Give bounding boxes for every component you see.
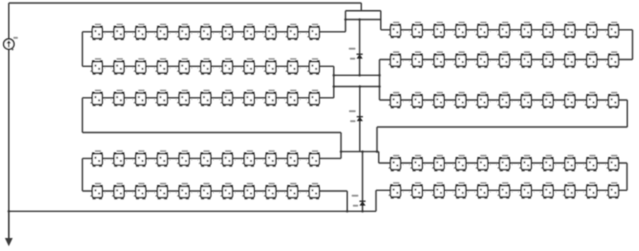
- wire L1-L2 left link: [81, 32, 83, 67]
- terminal specks SL1: [104, 192, 111, 193]
- PV cell block SL1: [389, 155, 401, 172]
- wire top bus left drop to row L1: [345, 11, 347, 32]
- PV cell block SL9: [563, 51, 575, 68]
- terminal specks SL6: [213, 67, 220, 68]
- PV cell block SL7: [221, 150, 233, 167]
- PV cell block SL1: [389, 22, 401, 38]
- PV cell block SL7: [221, 58, 233, 75]
- PV cell block SL3: [134, 183, 146, 200]
- PV cell block SL7: [520, 22, 532, 38]
- terminal specks SL4: [468, 191, 475, 192]
- PV cell block SL11: [607, 182, 619, 199]
- PV cell block SL10: [585, 155, 597, 172]
- terminal specks SL3: [148, 192, 155, 193]
- terminal specks SL8: [256, 192, 263, 193]
- terminal specks SL2: [126, 99, 133, 100]
- PV cell block SL9: [264, 90, 276, 107]
- terminal specks SL9: [278, 192, 285, 193]
- PV cell block SL3: [432, 22, 444, 38]
- PV cell block SL4: [454, 22, 466, 38]
- PV cell block SL4: [454, 182, 466, 199]
- PV cell block SL10: [585, 22, 597, 38]
- wire row L3: [82, 97, 333, 99]
- terminal specks SL6: [512, 61, 519, 62]
- terminal specks SL2: [424, 61, 431, 62]
- PV cell block SL1: [91, 90, 103, 107]
- node bottom L5: [346, 210, 349, 213]
- PV cell block SL5: [177, 183, 189, 200]
- terminal specks SL2: [424, 101, 431, 102]
- wire row L5: [82, 190, 347, 192]
- ground arrow: [5, 211, 13, 246]
- node mid bus 6: [378, 85, 381, 88]
- terminal specks SL1: [104, 67, 111, 68]
- node bus3 right: [376, 150, 379, 153]
- terminal specks SL2: [424, 31, 431, 32]
- PV cell block SL6: [199, 24, 211, 40]
- PV cell block SL3: [432, 51, 444, 68]
- wire bypass diode 1 branch: [359, 20, 361, 76]
- PV cell block SL6: [498, 22, 510, 38]
- node top bus B: [358, 18, 361, 21]
- terminal specks SL3: [148, 33, 155, 34]
- wire R1-R2 right link: [632, 30, 634, 60]
- PV cell block SL10: [286, 183, 298, 200]
- terminal specks SL1: [104, 99, 111, 100]
- PV cell block SL9: [264, 150, 276, 167]
- PV cell block SL10: [286, 90, 298, 107]
- PV cell block SL1: [389, 182, 401, 199]
- PV cell block SL6: [199, 90, 211, 107]
- PV cell block SL7: [520, 182, 532, 199]
- terminal specks SL5: [191, 192, 198, 193]
- terminal specks SL7: [533, 191, 540, 192]
- node mid bus 5: [359, 85, 362, 88]
- PV cell block SL4: [454, 155, 466, 172]
- PV cell block SL3: [432, 155, 444, 172]
- wire bottom negative bus: [9, 210, 376, 212]
- PV cell block SL4: [156, 150, 168, 167]
- terminal specks SL5: [191, 99, 198, 100]
- PV cell block SL5: [476, 182, 488, 199]
- PV cell block SL8: [242, 90, 254, 107]
- PV cell block SL8: [541, 92, 553, 109]
- terminal specks SL9: [278, 99, 285, 100]
- terminal specks SL10: [300, 159, 307, 160]
- PV cell block SL2: [112, 24, 124, 40]
- terminal specks SL7: [533, 61, 540, 62]
- PV cell block SL7: [221, 183, 233, 200]
- wire top bus rail upper: [346, 10, 381, 12]
- bypass diode D3: [352, 195, 366, 207]
- terminal specks SL4: [468, 101, 475, 102]
- wire top bus right drop to row R1: [380, 11, 382, 30]
- wire source top segment: [8, 3, 10, 39]
- PV cell block SL4: [156, 90, 168, 107]
- terminal specks SL5: [490, 31, 497, 32]
- terminal specks SL10: [300, 67, 307, 68]
- terminal specks SL6: [213, 99, 220, 100]
- terminal specks SL4: [468, 31, 475, 32]
- wire bus3 to R4 drop: [378, 152, 380, 163]
- PV cell block SL2: [112, 183, 124, 200]
- terminal specks SL10: [300, 99, 307, 100]
- PV cell block SL2: [112, 90, 124, 107]
- terminal specks SL2: [126, 192, 133, 193]
- PV cell block SL1: [91, 24, 103, 40]
- PV cell block SL2: [411, 155, 423, 172]
- terminal specks SL7: [533, 164, 540, 165]
- wire top feed drop: [360, 3, 362, 11]
- wire L3/L4 junction vertical: [340, 133, 342, 159]
- PV cell block SL2: [112, 150, 124, 167]
- wire row R1: [381, 29, 633, 31]
- PV cell block SL11: [607, 92, 619, 109]
- PV cell block SL1: [389, 92, 401, 109]
- wire row R3: [380, 99, 628, 101]
- terminal specks SL10: [599, 101, 606, 102]
- terminal specks SL2: [126, 159, 133, 160]
- terminal specks SL3: [148, 99, 155, 100]
- terminal specks SL5: [191, 67, 198, 68]
- terminal specks SL10: [599, 164, 606, 165]
- PV cell block SL11: [308, 24, 320, 40]
- PV cell block SL6: [498, 92, 510, 109]
- terminal specks SL7: [235, 67, 242, 68]
- terminal specks SL5: [490, 191, 497, 192]
- node mid bus 2: [358, 74, 361, 77]
- terminal specks SL4: [169, 99, 176, 100]
- terminal specks SL9: [577, 61, 584, 62]
- terminal specks SL6: [213, 33, 220, 34]
- terminal specks SL7: [533, 31, 540, 32]
- terminal specks SL8: [256, 67, 263, 68]
- terminal specks SL10: [599, 191, 606, 192]
- terminal specks SL4: [169, 33, 176, 34]
- PV cell block SL2: [411, 92, 423, 109]
- terminal specks SL5: [490, 101, 497, 102]
- PV cell block SL4: [156, 58, 168, 75]
- wire row L4: [82, 157, 341, 159]
- PV cell block SL9: [264, 24, 276, 40]
- wire L3 exit horizontal: [82, 132, 341, 134]
- PV cell block SL2: [411, 22, 423, 38]
- terminal specks SL9: [577, 164, 584, 165]
- terminal specks SL4: [468, 164, 475, 165]
- PV cell block SL8: [242, 58, 254, 75]
- PV cell block SL7: [520, 51, 532, 68]
- PV cell block SL9: [563, 22, 575, 38]
- wire row L1: [82, 31, 345, 33]
- PV cell block SL10: [286, 24, 298, 40]
- wire top bus rail lower: [346, 19, 381, 21]
- terminal specks SL1: [403, 164, 410, 165]
- PV cell block SL9: [563, 92, 575, 109]
- PV cell block SL6: [199, 183, 211, 200]
- PV cell block SL11: [607, 155, 619, 172]
- wire R2-R3 left link: [379, 60, 381, 101]
- terminal specks SL2: [126, 33, 133, 34]
- terminal specks SL2: [424, 164, 431, 165]
- PV cell block SL6: [498, 182, 510, 199]
- wire L3 exit drop: [81, 98, 83, 133]
- PV cell block SL3: [432, 182, 444, 199]
- PV cell block SL11: [607, 22, 619, 38]
- wire row R4: [379, 162, 627, 164]
- terminal specks SL4: [169, 192, 176, 193]
- PV cell block SL6: [199, 58, 211, 75]
- node mid bus 1: [333, 74, 336, 77]
- PV cell block SL2: [411, 182, 423, 199]
- wire row R2: [380, 59, 633, 61]
- PV cell block SL1: [91, 58, 103, 75]
- wire bypass diode 2 branch: [359, 87, 361, 152]
- bypass diode D2: [349, 110, 363, 122]
- terminal specks SL9: [577, 101, 584, 102]
- terminal specks SL10: [599, 31, 606, 32]
- terminal specks SL9: [278, 67, 285, 68]
- PV cell block SL5: [177, 58, 189, 75]
- terminal specks SL7: [235, 99, 242, 100]
- wire top positive rail: [9, 2, 362, 4]
- wire L4-L5 left link: [81, 158, 83, 191]
- terminal specks SL8: [256, 33, 263, 34]
- wire R3 return horizontal: [377, 126, 627, 128]
- terminal specks SL8: [555, 61, 562, 62]
- terminal specks SL8: [555, 101, 562, 102]
- node top bus A: [344, 18, 347, 21]
- terminal specks SL10: [300, 33, 307, 34]
- wire mid bus rail upper: [334, 74, 380, 76]
- PV cell block SL5: [177, 150, 189, 167]
- terminal specks SL8: [555, 164, 562, 165]
- terminal specks SL6: [512, 31, 519, 32]
- terminal specks SL6: [213, 159, 220, 160]
- terminal specks SL2: [424, 191, 431, 192]
- terminal specks SL3: [446, 164, 453, 165]
- PV cell block SL3: [134, 58, 146, 75]
- terminal specks SL1: [403, 61, 410, 62]
- PV cell block SL7: [520, 92, 532, 109]
- terminal specks SL7: [235, 192, 242, 193]
- PV cell block SL1: [389, 51, 401, 68]
- wire R3 return drop to bus3: [376, 127, 378, 152]
- PV cell block SL5: [476, 22, 488, 38]
- wire R4-R5 right link: [626, 163, 628, 190]
- node bottom left: [8, 210, 11, 213]
- terminal specks SL1: [403, 31, 410, 32]
- PV cell block SL2: [411, 51, 423, 68]
- terminal specks SL4: [468, 61, 475, 62]
- wire source bottom segment: [8, 49, 10, 211]
- PV cell block SL9: [563, 155, 575, 172]
- terminal specks SL3: [148, 67, 155, 68]
- terminal specks SL6: [512, 101, 519, 102]
- PV cell block SL10: [585, 182, 597, 199]
- PV cell block SL6: [498, 51, 510, 68]
- terminal specks SL9: [278, 159, 285, 160]
- PV cell block SL8: [242, 24, 254, 40]
- wire bypass diode 3 branch: [362, 152, 364, 212]
- PV cell block SL5: [476, 51, 488, 68]
- PV cell block SL4: [454, 51, 466, 68]
- wire row L2: [82, 65, 333, 67]
- PV cell block SL8: [541, 51, 553, 68]
- terminal specks SL1: [403, 101, 410, 102]
- node bus3 mid: [361, 150, 364, 153]
- terminal specks SL3: [446, 191, 453, 192]
- PV cell block SL9: [264, 58, 276, 75]
- PV cell block SL1: [91, 150, 103, 167]
- terminal specks SL3: [446, 101, 453, 102]
- PV cell block SL9: [563, 182, 575, 199]
- PV cell block SL10: [286, 150, 298, 167]
- node mid bus 3: [378, 74, 381, 77]
- wire row R5: [376, 189, 627, 191]
- PV cell block SL4: [156, 183, 168, 200]
- terminal specks SL1: [104, 159, 111, 160]
- wire bus3: [341, 151, 379, 153]
- PV cell block SL11: [308, 183, 320, 200]
- PV cell block SL5: [476, 92, 488, 109]
- PV cell block SL11: [607, 51, 619, 68]
- terminal specks SL8: [555, 191, 562, 192]
- bypass diode D1: [349, 48, 363, 60]
- PV cell block SL11: [308, 150, 320, 167]
- node bus3 left: [340, 150, 343, 153]
- node mid bus 4: [333, 85, 336, 88]
- PV cell block SL3: [432, 92, 444, 109]
- PV cell block SL8: [541, 182, 553, 199]
- PV cell block SL8: [242, 150, 254, 167]
- PV cell block SL8: [242, 183, 254, 200]
- PV cell block SL5: [177, 90, 189, 107]
- PV cell block SL1: [91, 183, 103, 200]
- terminal specks SL9: [278, 33, 285, 34]
- PV cell block SL3: [134, 90, 146, 107]
- terminal specks SL7: [533, 101, 540, 102]
- PV cell block SL4: [454, 92, 466, 109]
- PV cell block SL7: [221, 90, 233, 107]
- PV cell block SL7: [520, 155, 532, 172]
- PV cell block SL5: [476, 155, 488, 172]
- PV cell block SL5: [177, 24, 189, 40]
- wire mid bus rail lower: [334, 86, 380, 88]
- PV cell block SL3: [134, 150, 146, 167]
- current source PS1: [4, 37, 18, 51]
- terminal specks SL5: [191, 33, 198, 34]
- node bottom D3: [361, 210, 364, 213]
- terminal specks SL10: [300, 192, 307, 193]
- PV cell block SL8: [541, 155, 553, 172]
- terminal specks SL5: [490, 164, 497, 165]
- PV cell block SL8: [541, 22, 553, 38]
- PV cell block SL11: [308, 58, 320, 75]
- terminal specks SL5: [191, 159, 198, 160]
- terminal specks SL1: [403, 191, 410, 192]
- PV cell block SL11: [308, 90, 320, 107]
- wire R3 exit right drop: [626, 100, 628, 127]
- PV cell block SL4: [156, 24, 168, 40]
- PV cell block SL6: [498, 155, 510, 172]
- terminal specks SL8: [555, 31, 562, 32]
- PV cell block SL10: [286, 58, 298, 75]
- terminal specks SL5: [490, 61, 497, 62]
- PV cell block SL10: [585, 51, 597, 68]
- terminal specks SL9: [577, 31, 584, 32]
- terminal specks SL1: [104, 33, 111, 34]
- wire L2-L3 right link: [333, 66, 335, 98]
- terminal specks SL3: [446, 61, 453, 62]
- PV cell block SL9: [264, 183, 276, 200]
- terminal specks SL4: [169, 159, 176, 160]
- terminal specks SL10: [599, 61, 606, 62]
- terminal specks SL8: [256, 99, 263, 100]
- PV cell block SL7: [221, 24, 233, 40]
- PV cell block SL2: [112, 58, 124, 75]
- terminal specks SL6: [213, 192, 220, 193]
- terminal specks SL7: [235, 33, 242, 34]
- PV cell block SL10: [585, 92, 597, 109]
- PV cell block SL6: [199, 150, 211, 167]
- terminal specks SL9: [577, 191, 584, 192]
- wire L5 exit drop: [346, 191, 348, 211]
- terminal specks SL8: [256, 159, 263, 160]
- terminal specks SL4: [169, 67, 176, 68]
- terminal specks SL6: [512, 191, 519, 192]
- PV cell block SL3: [134, 24, 146, 40]
- wire R5 left drop to bottom bus: [375, 190, 377, 211]
- terminal specks SL3: [148, 159, 155, 160]
- terminal specks SL2: [126, 67, 133, 68]
- terminal specks SL6: [512, 164, 519, 165]
- terminal specks SL7: [235, 159, 242, 160]
- terminal specks SL3: [446, 31, 453, 32]
